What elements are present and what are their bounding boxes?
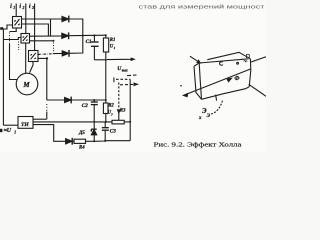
B field exit line bottom-right: [249, 84, 266, 96]
wire box2 bottom to motor: [25, 43, 27, 74]
svg-text:C1: C1: [86, 39, 92, 45]
Hall element U1 (box with diagonal symbol): [13, 17, 22, 29]
wire phase line 3 (top feed): [34, 4, 36, 51]
wire down left side to motor: [10, 44, 18, 80]
svg-text:у: у: [110, 112, 113, 116]
junction dot C3 bottom: [104, 140, 106, 142]
wire dotted down to row3: [53, 43, 55, 53]
wire dashes right of Uvyh: [127, 74, 137, 77]
svg-text:1: 1: [114, 46, 116, 50]
wire bus branch to box2 left pin: [3, 38, 21, 40]
wire right bus down: [129, 79, 131, 140]
wire box1 bottom jog to motor: [10, 28, 17, 32]
capacitor C3: [102, 122, 109, 141]
wire box1 lower output down to row2: [22, 24, 49, 36]
label R3: [120, 109, 126, 114]
wire row1 from box1 to diode D1: [22, 18, 63, 20]
label U1: [110, 45, 116, 50]
wire phase line 1 (top feed): [15, 4, 17, 17]
label D5: [78, 131, 85, 136]
svg-text:1: 1: [14, 130, 16, 134]
bottom electrode tick: [216, 95, 217, 101]
label R1: [110, 38, 116, 43]
node label i3: [29, 4, 34, 10]
junction dot box2 lower: [53, 40, 55, 42]
current line through plate: [184, 69, 251, 95]
current arrowhead inside plate: [227, 78, 231, 81]
resistor R3 (horizontal): [112, 120, 130, 124]
dashed arrow down to R3: [118, 83, 120, 110]
left bus wire from box1 left pin down to TH: [3, 25, 12, 125]
wire diode4 row: [47, 99, 65, 101]
wire TH middle output long to R3: [33, 121, 112, 123]
svg-text:R4: R4: [79, 146, 85, 151]
label C1: [86, 39, 92, 45]
wire dotted segment below box1 jog: [9, 33, 11, 45]
wire chain R1 bottom down to diode4 row and R2: [105, 60, 107, 103]
Hall plate: bottom edge: [202, 87, 250, 100]
svg-text:1: 1: [13, 6, 15, 10]
svg-text:Рис. 9.2. Эффект Холла: Рис. 9.2. Эффект Холла: [154, 142, 242, 149]
svg-text:i: i: [19, 4, 21, 10]
wire bus bottom corner into TH: [3, 124, 18, 126]
transformer TH box: [18, 117, 33, 129]
Hall plate: left face outer edge: [194, 66, 202, 99]
arrowhead output: [131, 58, 134, 60]
wire row3 diode to corner up to row2: [69, 36, 83, 54]
capacitor C1: [91, 35, 99, 59]
junction dot R1 top: [105, 34, 107, 36]
capacitor C2: [91, 100, 98, 122]
junction dot zener top: [93, 121, 95, 123]
label R2: [108, 103, 114, 108]
svg-text:i: i: [10, 4, 12, 10]
Hall plate: left top chamfer: [194, 63, 199, 66]
svg-text:х: х: [198, 116, 202, 121]
ink blot left edge: [0, 129, 2, 132]
svg-text:став для измерений мощност: став для измерений мощност: [139, 3, 266, 10]
svg-text:Ф: Ф: [234, 76, 239, 82]
wire row2 from box2 through diode D2 to C1 bus: [30, 35, 62, 38]
junction dot C1 top: [93, 34, 95, 36]
wire output arrow Uvyh: [107, 58, 133, 60]
label Uy: [108, 110, 114, 115]
junction blob box3 lower corner: [46, 57, 48, 59]
wire bottom rail C1-R1: [94, 59, 105, 61]
label C3: [110, 129, 116, 135]
diode D1: [62, 16, 69, 23]
svg-text:М: М: [22, 81, 30, 89]
svg-text:R1: R1: [110, 38, 116, 43]
wire row1 diode to corner down: [69, 19, 83, 36]
wire TH top output: [33, 118, 47, 120]
wire diode4 to R2 top junction: [71, 99, 106, 101]
Hall plate: right edge: [249, 59, 251, 87]
Hall plate: left face inner edge: [199, 63, 201, 99]
arrowhead at left end: [184, 94, 188, 97]
resistor R1: [103, 35, 108, 60]
label TH: [21, 122, 29, 128]
motor label M: [22, 81, 30, 89]
tiny o mark on face: [237, 62, 239, 64]
wire box2 lower output to junction: [30, 40, 54, 42]
label Phi on front face: [234, 76, 239, 82]
resistor R2: [103, 103, 108, 122]
label Ex (Hall emf): [198, 107, 211, 121]
zener diode D5 (stabilitron): [91, 122, 96, 141]
Hall element U2 (box with diagonal symbol): [21, 34, 30, 44]
dashed pointer to electrode: [211, 101, 223, 114]
svg-text:R2: R2: [108, 103, 114, 108]
wire row3 to diode D3: [53, 52, 62, 54]
svg-text:Э: Э: [207, 113, 211, 119]
node label i2: [19, 4, 24, 10]
caption: Рис. 9.2. Эффект Холла: [154, 142, 242, 149]
svg-text:≈U: ≈U: [4, 128, 12, 134]
wire bottom rail: [94, 140, 130, 143]
motor M circle: [16, 73, 38, 95]
wire left bus corner blob: [0, 27, 3, 30]
wire phase line 2 (top feed): [25, 4, 27, 34]
wire branch x=50.5 from row1 to row2: [50, 19, 52, 36]
label C2: [82, 103, 88, 109]
junction dot row1/row2: [82, 35, 84, 37]
wire box3 bottom slanted to motor: [30, 62, 33, 73]
wire dash-dot from box3 upper output: [38, 53, 53, 56]
label ~U1: [4, 128, 17, 134]
svg-text:вых: вых: [122, 69, 128, 73]
Hall plate: back top edge: [207, 52, 250, 59]
top-right lead line: [251, 57, 266, 62]
wire row2 bus to R1 top: [69, 34, 106, 37]
wire vertical x=46.8 from box3 lower output down to diode4 row: [38, 58, 47, 100]
svg-text:i: i: [29, 4, 31, 10]
svg-text:3: 3: [31, 6, 34, 10]
wire TH bottom output to diode5 row: [33, 125, 66, 142]
small dot above left arrow: [180, 85, 182, 87]
svg-text:C2: C2: [82, 103, 88, 109]
node label i1: [10, 4, 15, 10]
label Uvyh: [117, 66, 128, 72]
wire dotted continuation to TH top output: [46, 104, 48, 112]
svg-text:C3: C3: [110, 129, 116, 135]
resistor R4 (horizontal): [72, 139, 94, 143]
Hall element U3 (box with diagonal symbol): [29, 51, 39, 62]
B field arrow stub top-left: [190, 56, 200, 62]
diode D3: [62, 50, 69, 57]
electrode curl on top edge: [220, 62, 223, 65]
tiny mark near top-right corner: [244, 55, 250, 62]
svg-text:Д5: Д5: [78, 131, 85, 136]
dashed arrow lead: [120, 83, 134, 85]
diode D2: [62, 32, 69, 39]
svg-text:2: 2: [22, 6, 25, 10]
wire dotted below box2 left pin: [18, 42, 20, 51]
junction dot C2 tap: [93, 99, 95, 101]
diode D4: [65, 97, 72, 104]
label R4: [79, 146, 85, 151]
junction dot diode4 row end: [105, 99, 107, 101]
junction dot bottom rail: [105, 59, 107, 61]
svg-text:ТН: ТН: [21, 122, 29, 128]
junction dot zener bottom: [93, 140, 95, 142]
junction dot R3 right: [129, 121, 131, 123]
dashed output corner: [113, 78, 115, 83]
diode D5b bottom row: [66, 138, 73, 145]
top-right running text: [139, 3, 266, 10]
junction dot R2 bottom: [105, 121, 107, 123]
Hall plate: front top edge: [199, 59, 248, 63]
